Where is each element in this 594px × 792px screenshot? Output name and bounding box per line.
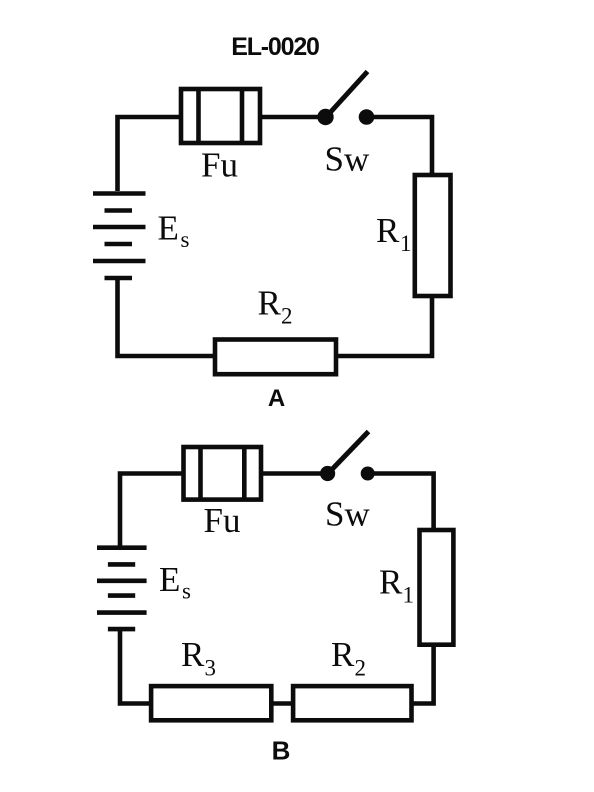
switch Sw (circuit A)	[317, 72, 374, 126]
svg-text:2: 2	[355, 656, 367, 681]
wire B right-bottom	[412, 645, 434, 704]
svg-text:R: R	[376, 211, 400, 250]
label R2 (circuit A)	[258, 284, 293, 329]
title EL-0020	[231, 33, 319, 61]
wire B fuse-to-switch	[261, 471, 328, 476]
battery Es (circuit A)	[93, 194, 146, 279]
label Sw (circuit B)	[325, 495, 370, 534]
svg-text:R: R	[258, 284, 282, 323]
wire B between R2 and R3	[271, 701, 293, 706]
svg-text:3: 3	[205, 656, 217, 681]
svg-text:A: A	[268, 385, 285, 412]
fuse Fu (circuit A)	[181, 89, 260, 143]
battery Es (circuit B)	[97, 548, 147, 629]
svg-text:s: s	[181, 227, 190, 252]
resistor R2 (circuit A)	[215, 340, 336, 375]
resistor R1 (circuit A)	[415, 175, 451, 296]
svg-text:s: s	[182, 579, 191, 604]
svg-text:E: E	[159, 560, 180, 599]
svg-text:R: R	[331, 635, 355, 674]
wire A right-bottom	[336, 296, 432, 356]
svg-text:R: R	[181, 635, 205, 674]
switch Sw (circuit B)	[320, 432, 375, 482]
label R3 (circuit B)	[181, 635, 216, 681]
wire B top-left	[120, 474, 184, 546]
svg-text:2: 2	[281, 304, 293, 329]
wire B switch-to-right	[368, 474, 434, 531]
wire A fuse-to-switch	[260, 115, 326, 120]
label A	[268, 385, 285, 412]
svg-text:1: 1	[403, 583, 415, 608]
wire A bottom-left	[118, 280, 216, 356]
svg-text:Sw: Sw	[325, 140, 370, 179]
svg-text:E: E	[158, 209, 179, 248]
svg-text:1: 1	[400, 231, 412, 256]
svg-text:R: R	[379, 563, 403, 602]
wire B bottom-left	[120, 631, 151, 704]
label Sw (circuit A)	[325, 140, 370, 179]
label R2 (circuit B)	[331, 635, 366, 681]
label Fu (circuit B)	[204, 501, 241, 540]
svg-text:B: B	[272, 736, 291, 766]
label R1 (circuit A)	[376, 211, 412, 256]
svg-text:Fu: Fu	[204, 501, 241, 540]
svg-text:Sw: Sw	[325, 495, 370, 534]
resistor R3 (circuit B)	[151, 686, 271, 720]
resistor R1 (circuit B)	[420, 530, 454, 645]
svg-text:Fu: Fu	[201, 146, 238, 185]
label Es (circuit B)	[159, 560, 191, 604]
label R1 (circuit B)	[379, 563, 414, 608]
wire A top-left	[118, 117, 182, 191]
fuse Fu (circuit B)	[184, 447, 262, 500]
label Fu (circuit A)	[201, 146, 238, 185]
resistor R2 (circuit B)	[293, 686, 411, 720]
label B	[272, 736, 291, 766]
label Es (circuit A)	[158, 209, 190, 253]
wire A switch-to-right	[367, 117, 433, 175]
svg-text:EL-0020: EL-0020	[231, 33, 319, 61]
